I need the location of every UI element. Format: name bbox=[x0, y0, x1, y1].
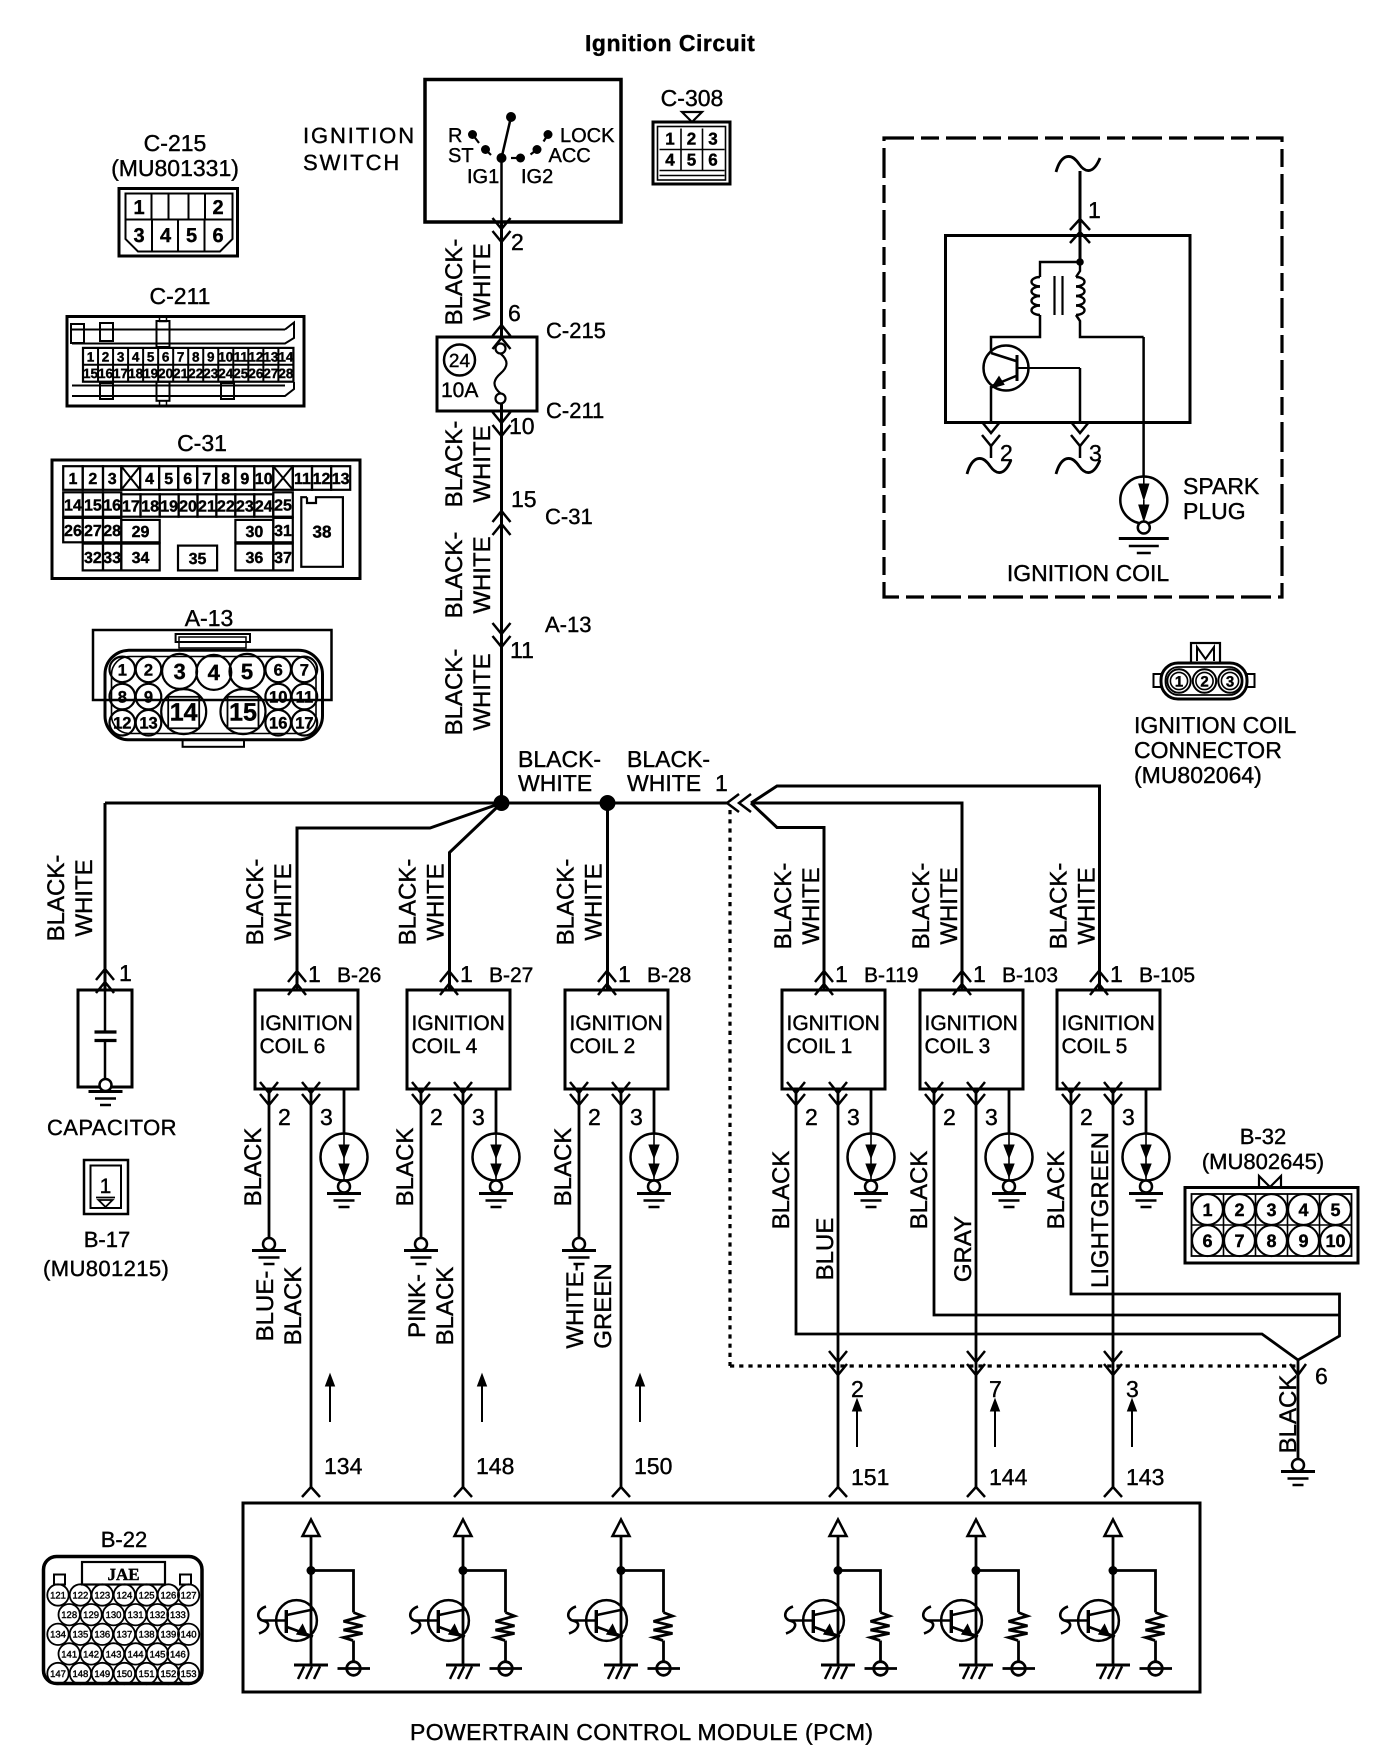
ignition coil B-103 secondary wire to spark plug bbox=[1008, 1089, 1011, 1134]
svg-text:1: 1 bbox=[68, 471, 77, 488]
svg-text:2: 2 bbox=[88, 471, 97, 488]
svg-text:10: 10 bbox=[269, 689, 287, 707]
PCM driver supply triangle 5 bbox=[968, 1520, 985, 1537]
wire bus to ignition coil 5 / coil detail bbox=[751, 786, 1100, 990]
svg-text:122: 122 bbox=[72, 1590, 88, 1601]
svg-text:IG1: IG1 bbox=[467, 166, 499, 188]
svg-text:21: 21 bbox=[173, 366, 189, 381]
svg-text:13: 13 bbox=[139, 715, 157, 733]
svg-text:4: 4 bbox=[1298, 1200, 1308, 1220]
resistor R5 bbox=[1009, 1613, 1028, 1641]
svg-text:C-31: C-31 bbox=[177, 430, 227, 456]
svg-text:1: 1 bbox=[1110, 961, 1123, 987]
svg-text:C-31: C-31 bbox=[545, 504, 593, 529]
ground at coil pin 2 bbox=[404, 1249, 438, 1252]
svg-text:20: 20 bbox=[158, 366, 173, 381]
wire collector drop pin 2 bbox=[990, 386, 993, 423]
ignition coil B-119 secondary wire to spark plug bbox=[870, 1089, 873, 1134]
svg-text:B-28: B-28 bbox=[647, 964, 691, 987]
transistor Q2 bbox=[428, 1600, 469, 1641]
ignition coil B-105 pin 3 wire bbox=[1112, 1089, 1115, 1105]
svg-text:1: 1 bbox=[308, 961, 321, 987]
connector C-308 body bbox=[653, 122, 730, 184]
ignition coil B-27 pin 2 wire bbox=[420, 1089, 423, 1105]
ignition coil B-27 secondary wire to spark plug bbox=[495, 1089, 498, 1134]
wire supply into ignition coil pin 1 bbox=[1079, 171, 1082, 262]
terminal circle 3 bbox=[648, 1667, 681, 1670]
svg-text:BLACK: BLACK bbox=[392, 1128, 419, 1207]
svg-text:COIL 1: COIL 1 bbox=[787, 1035, 853, 1058]
ignition switch rotor bbox=[502, 117, 512, 158]
svg-text:1: 1 bbox=[1175, 674, 1183, 691]
svg-text:BLACK-: BLACK- bbox=[518, 746, 601, 772]
node junction A bbox=[494, 795, 510, 811]
ignition coil B-119 box bbox=[782, 990, 885, 1089]
svg-text:B-119: B-119 bbox=[864, 964, 918, 987]
ground transistor 2 bbox=[446, 1664, 480, 1667]
svg-text:10: 10 bbox=[509, 413, 535, 439]
ground transistor 4 bbox=[821, 1664, 855, 1667]
ground transistor 3 bbox=[604, 1664, 638, 1667]
svg-text:3: 3 bbox=[320, 1104, 333, 1130]
terminal circle 2 bbox=[490, 1667, 523, 1670]
wire to resistor 5 bbox=[976, 1571, 1019, 1613]
svg-text:C-211: C-211 bbox=[546, 398, 604, 423]
fuse 24 10A bbox=[437, 337, 537, 411]
svg-text:2: 2 bbox=[511, 229, 524, 255]
resistor R6 bbox=[1146, 1613, 1165, 1641]
ignition coil pin 3 stub bbox=[1071, 422, 1089, 433]
svg-text:4: 4 bbox=[160, 225, 172, 247]
ignition coil B-103 box bbox=[920, 990, 1023, 1089]
svg-text:12: 12 bbox=[313, 471, 331, 488]
svg-text:13: 13 bbox=[332, 471, 350, 488]
svg-text:2: 2 bbox=[943, 1104, 956, 1130]
svg-text:14: 14 bbox=[278, 349, 294, 364]
terminal circle 6 bbox=[1140, 1667, 1173, 1670]
svg-text:144: 144 bbox=[128, 1649, 144, 1660]
svg-text:27: 27 bbox=[263, 366, 278, 381]
svg-text:24: 24 bbox=[255, 498, 273, 515]
spark plug of B-28 bbox=[631, 1134, 678, 1181]
svg-text:10: 10 bbox=[255, 471, 273, 488]
svg-text:24: 24 bbox=[449, 351, 471, 372]
svg-text:7: 7 bbox=[300, 661, 309, 679]
ignition coil B-105 secondary wire to spark plug bbox=[1145, 1089, 1148, 1134]
svg-text:30: 30 bbox=[245, 524, 263, 541]
svg-text:B-22: B-22 bbox=[101, 1527, 147, 1552]
svg-text:1: 1 bbox=[1088, 197, 1101, 223]
wire to resistor 1 bbox=[311, 1571, 354, 1613]
wire resistor to terminal 2 bbox=[504, 1641, 507, 1663]
svg-text:3: 3 bbox=[173, 659, 185, 684]
svg-text:132: 132 bbox=[150, 1610, 166, 1621]
connector crossing chevrons at harness bbox=[967, 1351, 985, 1362]
svg-text:152: 152 bbox=[160, 1669, 176, 1680]
ignition coil B-28 pin 2 wire bbox=[578, 1089, 581, 1105]
PCM driver wire 3 bbox=[620, 1536, 623, 1665]
svg-text:CAPACITOR: CAPACITOR bbox=[47, 1115, 177, 1140]
connector C-31 cell 38 bbox=[301, 497, 343, 567]
svg-text:C-215: C-215 bbox=[144, 130, 207, 156]
svg-text:SWITCH: SWITCH bbox=[303, 150, 401, 175]
svg-text:12: 12 bbox=[248, 349, 263, 364]
svg-text:R: R bbox=[448, 125, 462, 147]
direction arrow bbox=[329, 1383, 331, 1422]
svg-text:153: 153 bbox=[181, 1669, 197, 1680]
svg-text:150: 150 bbox=[116, 1669, 132, 1680]
wire resistor to terminal 3 bbox=[662, 1641, 665, 1663]
wire resistor to terminal 5 bbox=[1017, 1641, 1020, 1663]
node driver junction 1 bbox=[307, 1566, 316, 1575]
svg-text:7: 7 bbox=[202, 471, 211, 488]
PCM entry chevron bbox=[612, 1487, 630, 1497]
ignition coil B-28 secondary wire to spark plug bbox=[653, 1089, 656, 1134]
svg-text:23: 23 bbox=[203, 366, 219, 381]
svg-text:18: 18 bbox=[128, 366, 144, 381]
svg-text:18: 18 bbox=[141, 498, 159, 515]
wire to resistor 6 bbox=[1113, 1571, 1156, 1613]
svg-text:8: 8 bbox=[192, 349, 200, 364]
capacitor C1 bbox=[96, 969, 114, 980]
ignition coil B-28 pin 1 entry bbox=[598, 971, 616, 982]
ignition coil B-28 box bbox=[565, 990, 668, 1089]
direction arrow bbox=[856, 1408, 858, 1447]
svg-text:9: 9 bbox=[207, 349, 215, 364]
wire junction B to ignition coil 2 bbox=[606, 803, 609, 990]
svg-text:12: 12 bbox=[113, 715, 131, 733]
svg-text:126: 126 bbox=[160, 1590, 176, 1601]
node driver junction 4 bbox=[834, 1566, 843, 1575]
svg-text:138: 138 bbox=[139, 1630, 155, 1641]
svg-text:6: 6 bbox=[708, 151, 717, 170]
ignition coil B-26 pin 2 wire bbox=[268, 1089, 271, 1105]
connector C-211 pin grid bbox=[83, 348, 293, 382]
svg-text:BLACK-WHITE: BLACK-WHITE bbox=[1046, 863, 1101, 950]
svg-text:A-13: A-13 bbox=[185, 605, 234, 631]
svg-text:JAE: JAE bbox=[107, 1565, 139, 1584]
PCM driver supply triangle 4 bbox=[830, 1520, 847, 1537]
svg-text:5: 5 bbox=[164, 471, 173, 488]
svg-text:3: 3 bbox=[1126, 1376, 1139, 1402]
powertrain control module box bbox=[243, 1503, 1200, 1692]
wire to resistor 2 bbox=[463, 1571, 506, 1613]
svg-text:B-32: B-32 bbox=[1240, 1124, 1286, 1149]
svg-text:143: 143 bbox=[106, 1649, 122, 1660]
svg-text:COIL 4: COIL 4 bbox=[412, 1035, 478, 1058]
svg-text:2: 2 bbox=[805, 1104, 818, 1130]
ignition coil B-105 pin 2 wire bbox=[1070, 1089, 1073, 1105]
svg-text:140: 140 bbox=[181, 1630, 197, 1641]
wire BLACK coil pin 2 to ground splice bbox=[578, 1105, 581, 1238]
svg-text:9: 9 bbox=[144, 689, 153, 707]
wire break at coil supply bbox=[1056, 156, 1100, 172]
svg-text:129: 129 bbox=[83, 1610, 99, 1621]
svg-text:BLACK: BLACK bbox=[1275, 1375, 1302, 1454]
ground capacitor bbox=[89, 1090, 123, 1093]
PCM driver wire 5 bbox=[975, 1536, 978, 1665]
wire BLUE coil pin 3 to PCM pin 151 bbox=[837, 1105, 840, 1489]
PCM entry chevron bbox=[829, 1487, 847, 1497]
svg-text:6: 6 bbox=[212, 225, 223, 247]
svg-text:146: 146 bbox=[170, 1649, 186, 1660]
ignition coil internal box bbox=[946, 236, 1191, 423]
resistor R4 bbox=[871, 1613, 890, 1641]
svg-text:BLUE: BLUE bbox=[812, 1218, 839, 1281]
svg-text:4: 4 bbox=[132, 349, 140, 364]
svg-text:123: 123 bbox=[94, 1590, 110, 1601]
transformer T1 core bbox=[1053, 276, 1055, 315]
connector B-17 bbox=[84, 1160, 128, 1214]
svg-text:COIL 2: COIL 2 bbox=[570, 1035, 636, 1058]
svg-text:11: 11 bbox=[294, 471, 311, 488]
node driver junction 3 bbox=[617, 1566, 626, 1575]
resistor R3 bbox=[654, 1613, 673, 1641]
svg-text:26: 26 bbox=[248, 366, 264, 381]
ground transistor 6 bbox=[1096, 1664, 1130, 1667]
svg-text:3: 3 bbox=[1266, 1200, 1276, 1220]
svg-text:2: 2 bbox=[144, 661, 153, 679]
node junction B bbox=[600, 795, 616, 811]
svg-text:136: 136 bbox=[94, 1630, 110, 1641]
svg-text:PLUG: PLUG bbox=[1183, 498, 1246, 524]
svg-text:C-211: C-211 bbox=[150, 283, 211, 309]
svg-text:142: 142 bbox=[83, 1649, 99, 1660]
svg-text:7: 7 bbox=[989, 1376, 1002, 1402]
connector A-13 pin circles bbox=[110, 657, 136, 683]
wire pin 3 drop bbox=[1079, 368, 1082, 423]
svg-text:BLACK-WHITE: BLACK-WHITE bbox=[395, 859, 450, 946]
svg-text:COIL 3: COIL 3 bbox=[925, 1035, 991, 1058]
connector C-215 body bbox=[119, 189, 238, 257]
wire bus to ignition coil 1 bbox=[751, 803, 824, 990]
wire to resistor 3 bbox=[621, 1571, 664, 1613]
svg-text:32: 32 bbox=[84, 550, 102, 567]
svg-text:BLACK-WHITE: BLACK-WHITE bbox=[242, 859, 297, 946]
wire resistor to terminal 1 bbox=[352, 1641, 355, 1663]
svg-text:3: 3 bbox=[847, 1104, 860, 1130]
svg-text:1: 1 bbox=[87, 349, 95, 364]
svg-text:11: 11 bbox=[510, 637, 534, 663]
svg-text:2: 2 bbox=[1080, 1104, 1093, 1130]
spark plug of B-103 bbox=[986, 1134, 1033, 1181]
ignition coil B-27 pin 3 wire bbox=[462, 1089, 465, 1105]
svg-text:C-308: C-308 bbox=[661, 85, 724, 111]
wire PINK-BLACK coil pin 3 to PCM pin 148 bbox=[462, 1105, 465, 1489]
svg-text:IG2: IG2 bbox=[521, 166, 553, 188]
svg-text:PINK-BLACK: PINK-BLACK bbox=[404, 1267, 459, 1346]
svg-text:ST: ST bbox=[448, 145, 474, 167]
wire C-31 to A-13 (BLACK-WHITE) bbox=[500, 516, 503, 648]
svg-text:BLACK: BLACK bbox=[240, 1128, 267, 1207]
svg-text:8: 8 bbox=[221, 471, 230, 488]
connector B-22 pins bbox=[47, 1584, 68, 1605]
svg-text:134: 134 bbox=[50, 1630, 66, 1641]
svg-text:2: 2 bbox=[278, 1104, 291, 1130]
spark plug of B-27 bbox=[473, 1134, 520, 1181]
PCM entry chevron bbox=[302, 1487, 320, 1497]
svg-text:13: 13 bbox=[263, 349, 279, 364]
wire to resistor 4 bbox=[838, 1571, 881, 1613]
svg-text:7: 7 bbox=[1234, 1231, 1244, 1251]
svg-text:IGNITION COIL: IGNITION COIL bbox=[1007, 560, 1170, 586]
transistor Q6 bbox=[1078, 1600, 1119, 1641]
node primary junction bbox=[1076, 258, 1084, 266]
svg-text:15: 15 bbox=[84, 497, 102, 514]
svg-text:19: 19 bbox=[160, 498, 178, 515]
svg-text:IGNITION: IGNITION bbox=[570, 1012, 663, 1035]
svg-text:15: 15 bbox=[83, 366, 99, 381]
ground spark plug bbox=[1119, 537, 1169, 540]
svg-text:2: 2 bbox=[212, 197, 223, 219]
wire resistor to terminal 6 bbox=[1154, 1641, 1157, 1663]
svg-text:6: 6 bbox=[1202, 1231, 1212, 1251]
wire BLUE-BLACK coil pin 3 to PCM pin 134 bbox=[310, 1105, 313, 1489]
wire junction A to capacitor bbox=[104, 803, 107, 990]
ignition coil pin 2 stub bbox=[982, 422, 1000, 433]
spark plug of B-119 bbox=[848, 1134, 895, 1181]
connector B-22 body bbox=[44, 1557, 203, 1684]
svg-text:7: 7 bbox=[177, 349, 185, 364]
wire LIGHTGREEN coil pin 3 to PCM pin 143 bbox=[1112, 1105, 1115, 1489]
svg-text:IGNITION: IGNITION bbox=[303, 123, 416, 148]
svg-text:144: 144 bbox=[989, 1464, 1028, 1490]
svg-text:148: 148 bbox=[72, 1669, 88, 1680]
svg-text:25: 25 bbox=[274, 497, 292, 514]
PCM driver wire 2 bbox=[462, 1536, 465, 1665]
svg-text:6: 6 bbox=[508, 300, 521, 326]
svg-text:Ignition Circuit: Ignition Circuit bbox=[585, 30, 755, 56]
svg-text:9: 9 bbox=[240, 471, 249, 488]
terminal circle 4 bbox=[865, 1667, 898, 1670]
svg-text:2: 2 bbox=[102, 349, 110, 364]
svg-text:15: 15 bbox=[511, 486, 537, 512]
svg-text:3: 3 bbox=[630, 1104, 643, 1130]
svg-text:130: 130 bbox=[106, 1610, 122, 1621]
svg-text:133: 133 bbox=[170, 1610, 186, 1621]
svg-text:131: 131 bbox=[128, 1610, 144, 1621]
wire BLACK coil 3 pin 2 to ground bus bbox=[934, 1105, 1340, 1315]
svg-text:5: 5 bbox=[241, 659, 253, 684]
svg-text:WHITE-GREEN: WHITE-GREEN bbox=[562, 1263, 617, 1348]
connector C-308 latch bbox=[682, 112, 702, 122]
svg-text:37: 37 bbox=[274, 550, 292, 567]
svg-text:(MU801215): (MU801215) bbox=[43, 1256, 169, 1281]
svg-text:28: 28 bbox=[103, 523, 121, 540]
ignition coil B-26 box bbox=[255, 990, 358, 1089]
ignition coil connector latch bbox=[1191, 643, 1220, 663]
connector crossing chevrons on bus bbox=[727, 794, 739, 812]
svg-text:BLACK-WHITE: BLACK-WHITE bbox=[441, 649, 496, 736]
svg-text:11: 11 bbox=[296, 689, 313, 707]
ignition coil B-119 pin 2 wire bbox=[795, 1089, 798, 1105]
svg-text:10A: 10A bbox=[441, 379, 478, 402]
wire junction A to ignition coil 6 bbox=[297, 803, 502, 990]
svg-text:16: 16 bbox=[98, 366, 114, 381]
svg-text:10: 10 bbox=[1325, 1231, 1345, 1251]
wire BLACK coil 5 pin 2 to ground bus bbox=[1071, 1105, 1340, 1360]
terminal circle 1 bbox=[338, 1667, 371, 1670]
svg-text:COIL 6: COIL 6 bbox=[260, 1035, 326, 1058]
svg-text:147: 147 bbox=[50, 1669, 66, 1680]
svg-text:22: 22 bbox=[188, 366, 203, 381]
svg-text:3: 3 bbox=[133, 225, 144, 247]
ignition coil B-119 pin 3 wire bbox=[837, 1089, 840, 1105]
svg-text:BLACK-WHITE: BLACK-WHITE bbox=[441, 532, 496, 619]
svg-text:11: 11 bbox=[234, 349, 249, 364]
svg-text:B-17: B-17 bbox=[84, 1227, 130, 1252]
svg-text:17: 17 bbox=[122, 498, 140, 515]
ignition coil detail dashed boundary bbox=[884, 138, 1282, 597]
direction arrow bbox=[994, 1408, 996, 1447]
svg-text:128: 128 bbox=[61, 1610, 77, 1621]
ignition coil B-27 pin 1 entry bbox=[440, 971, 458, 982]
svg-text:1: 1 bbox=[973, 961, 986, 987]
svg-text:21: 21 bbox=[198, 498, 216, 515]
svg-text:(MU802645): (MU802645) bbox=[1202, 1149, 1324, 1174]
connector A-13 body bbox=[93, 630, 332, 700]
wire WHITE-GREEN coil pin 3 to PCM pin 150 bbox=[620, 1105, 623, 1489]
connector B-32 body bbox=[1185, 1188, 1358, 1264]
svg-text:LOCK: LOCK bbox=[560, 125, 615, 147]
svg-text:5: 5 bbox=[1330, 1200, 1340, 1220]
spark plug of B-105 bbox=[1123, 1134, 1170, 1181]
wire secondary to spark plug bbox=[1142, 337, 1145, 477]
svg-text:151: 151 bbox=[851, 1464, 889, 1490]
wire A-13 to junction (BLACK-WHITE) bbox=[500, 648, 503, 803]
svg-text:6: 6 bbox=[274, 661, 283, 679]
ground transistor 1 bbox=[294, 1664, 328, 1667]
ignition coil B-26 pin 3 wire bbox=[310, 1089, 313, 1105]
node driver junction 5 bbox=[972, 1566, 981, 1575]
ignition coil B-105 pin 1 entry bbox=[1090, 971, 1108, 982]
ignition coil B-105 box bbox=[1057, 990, 1160, 1089]
svg-text:IGNITION: IGNITION bbox=[787, 1012, 880, 1035]
svg-text:4: 4 bbox=[145, 471, 154, 488]
svg-text:1: 1 bbox=[715, 770, 728, 796]
svg-text:3: 3 bbox=[708, 130, 717, 149]
ignition coil connector body bbox=[1161, 663, 1247, 699]
ignition coil B-26 pin 1 entry bbox=[288, 971, 306, 982]
spark plug of B-26 bbox=[321, 1134, 368, 1181]
svg-text:BLACK-WHITE: BLACK-WHITE bbox=[908, 863, 963, 950]
svg-text:35: 35 bbox=[189, 551, 207, 568]
svg-text:CONNECTOR: CONNECTOR bbox=[1134, 737, 1282, 763]
connector C-211 body bbox=[67, 317, 304, 407]
wire bus to ignition coil 3 bbox=[751, 803, 962, 990]
svg-text:3: 3 bbox=[1122, 1104, 1135, 1130]
ground transistor 5 bbox=[959, 1664, 993, 1667]
svg-text:31: 31 bbox=[274, 523, 292, 540]
connector crossing chevrons at harness bbox=[1104, 1351, 1122, 1362]
ground at pin 6 bbox=[1281, 1470, 1315, 1473]
PCM driver wire 4 bbox=[837, 1536, 840, 1665]
svg-text:151: 151 bbox=[139, 1669, 155, 1680]
svg-text:150: 150 bbox=[634, 1453, 672, 1479]
svg-text:3: 3 bbox=[108, 471, 117, 488]
wire BLACK coil pin 2 to ground splice bbox=[268, 1105, 271, 1238]
ignition coil B-119 pin 1 entry bbox=[815, 971, 833, 982]
svg-text:3: 3 bbox=[472, 1104, 485, 1130]
svg-text:LIGHTGREEN: LIGHTGREEN bbox=[1087, 1132, 1114, 1288]
svg-text:6: 6 bbox=[162, 349, 170, 364]
svg-text:23: 23 bbox=[236, 498, 254, 515]
svg-text:1: 1 bbox=[119, 960, 132, 986]
svg-text:3: 3 bbox=[117, 349, 125, 364]
svg-text:38: 38 bbox=[313, 523, 332, 542]
svg-text:POWERTRAIN CONTROL MODULE (PCM: POWERTRAIN CONTROL MODULE (PCM) bbox=[410, 1719, 873, 1745]
transistor Q3 bbox=[586, 1600, 627, 1641]
